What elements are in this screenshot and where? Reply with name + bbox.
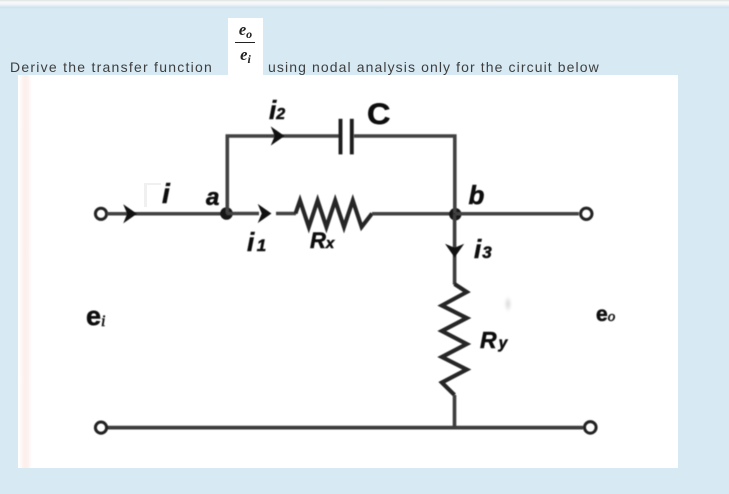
wire capacitor to node b (right vertical) xyxy=(354,136,455,214)
label i3 xyxy=(474,234,492,265)
top white strip xyxy=(0,0,729,9)
label Ry xyxy=(480,327,507,354)
terminal bottom-left xyxy=(95,422,106,433)
wire node a to Rx xyxy=(227,212,260,216)
capacitor C plate right xyxy=(350,119,354,155)
node a xyxy=(220,207,233,220)
label C xyxy=(367,98,390,132)
arrow i1 xyxy=(258,204,272,223)
wire node b to output terminal xyxy=(455,212,579,216)
faint smudge artifact right of node b branch xyxy=(504,296,512,312)
bottom wire xyxy=(107,426,584,430)
label eo xyxy=(596,303,615,327)
arrow i3 xyxy=(445,244,464,258)
node b xyxy=(449,208,461,220)
wire Rx to node b xyxy=(372,212,455,216)
arrow i2 xyxy=(271,126,285,145)
capacitor C plate left xyxy=(339,119,343,155)
label Rx xyxy=(310,228,334,254)
faint pink strip at panel left xyxy=(19,75,32,468)
label b xyxy=(469,180,485,211)
label a xyxy=(206,184,219,212)
resistor Rx xyxy=(296,201,373,228)
label i1 xyxy=(247,227,266,258)
label i2 xyxy=(269,95,285,126)
question text left part xyxy=(10,59,213,75)
white circuit panel xyxy=(18,75,678,468)
label ei xyxy=(86,301,105,332)
label i xyxy=(162,178,170,210)
terminal output top-right xyxy=(581,208,592,219)
terminal bottom-right xyxy=(585,422,597,434)
wire input to node a xyxy=(107,212,226,216)
question text right part xyxy=(268,59,600,75)
arrow i xyxy=(123,204,137,223)
faint artifact near label i xyxy=(144,183,161,207)
fraction box eo/ei xyxy=(228,18,263,75)
wire node a up to capacitor branch xyxy=(227,136,338,214)
terminal input top-left xyxy=(95,208,106,219)
resistor Ry xyxy=(442,284,467,395)
wire Ry to bottom wire xyxy=(453,395,457,429)
wire node b down to Ry xyxy=(453,214,457,285)
